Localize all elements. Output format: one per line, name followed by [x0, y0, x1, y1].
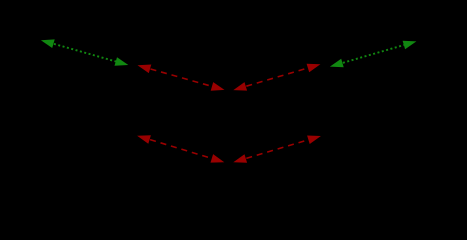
red dashed double arrow 4 (bottom-right shift) [233, 136, 321, 163]
red dashed double arrow 1 (top-left shift) [138, 65, 225, 91]
red dashed double arrow 3 (bottom-left shift) [137, 135, 224, 162]
green dotted double arrow 2 (top-right merger) [330, 41, 417, 67]
red dashed double arrow 2 (top-right shift) [233, 64, 320, 91]
green dotted double arrow 1 (top-left merger) [41, 39, 128, 65]
